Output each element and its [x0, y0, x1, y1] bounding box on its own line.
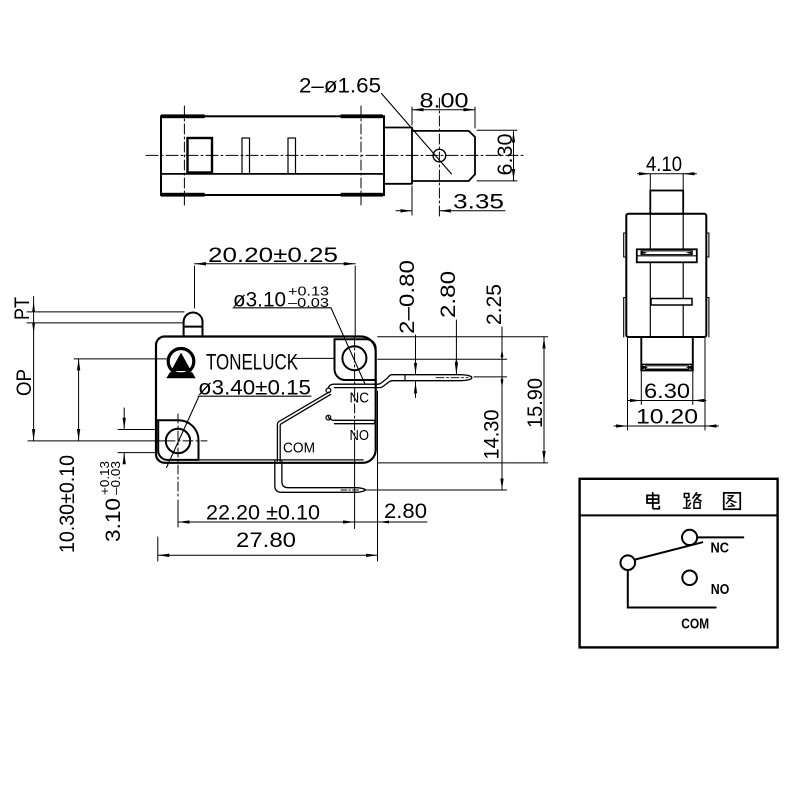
top view plunger outline [412, 131, 475, 181]
dimension 15.90 [524, 378, 547, 428]
svg-text:8.00: 8.00 [420, 90, 469, 113]
PT reference line free position [27, 311, 184, 313]
plunger button dome [184, 312, 203, 336]
PT dimension label [11, 297, 34, 320]
dimension 2.80 right [437, 271, 460, 318]
dimension 3.10 left with tolerance [97, 461, 125, 542]
svg-text:NO: NO [711, 582, 730, 598]
svg-text:2–ø1.65: 2–ø1.65 [299, 75, 381, 98]
top view plunger hole centerline [438, 98, 440, 216]
mounting hole top-right [342, 346, 366, 370]
circuit box frame [580, 479, 778, 648]
top view centerline vertical right [360, 106, 362, 205]
side view button [650, 191, 683, 214]
side view left rib upper [624, 233, 627, 257]
svg-text:10.20: 10.20 [636, 406, 698, 429]
svg-text:22.20 ±0.10: 22.20 ±0.10 [206, 502, 320, 525]
COM lead centerline [341, 489, 359, 491]
top view raised tab bottom-left [161, 193, 205, 197]
right extension line body bottom [378, 462, 548, 464]
svg-text:NO: NO [350, 428, 370, 444]
dimension 2-0.80 [396, 260, 419, 334]
COM spring arm [277, 392, 330, 461]
dimension 14.30 [481, 410, 504, 460]
top view horizontal centerline [146, 154, 524, 156]
chinese title lu (road) [684, 493, 702, 509]
top view pin hole [433, 149, 446, 162]
OP reference line bottom [28, 440, 165, 442]
top view raised tab bottom-right [341, 193, 383, 197]
body interior bottom wall [199, 459, 364, 461]
svg-text:–0.03: –0.03 [108, 461, 123, 495]
top view square opening [188, 138, 213, 173]
NO internal bar [328, 417, 374, 424]
hole centerline vertical top-right [354, 336, 356, 437]
top view raised tab top-left [161, 114, 205, 118]
circuit lever arm [635, 542, 703, 559]
side view right rib lower [706, 298, 709, 338]
side view right rib upper [706, 233, 709, 257]
chinese title tu (drawing) [724, 493, 740, 509]
svg-text:3.35: 3.35 [453, 191, 504, 214]
top view body outline [161, 116, 384, 195]
svg-text:NC: NC [350, 391, 370, 407]
circuit NC wire [697, 536, 743, 538]
dimension 2.25 [483, 284, 506, 325]
circuit COM pivot circle [621, 555, 636, 570]
svg-text:TONELUCK: TONELUCK [206, 350, 298, 375]
circuit NO contact circle [682, 571, 697, 586]
top view internal parting line [161, 173, 384, 175]
top view neck [384, 128, 412, 184]
NC blade centerline [436, 377, 468, 379]
svg-text:NC: NC [711, 541, 730, 557]
svg-text:OP: OP [13, 369, 36, 396]
NC internal bar [328, 384, 376, 388]
COM lead pin [275, 461, 366, 492]
chinese title dian (electric) [647, 493, 659, 509]
top view raised tab top-right [341, 114, 383, 118]
right extension line hole center [378, 358, 507, 360]
circuit NC contact circle [682, 530, 697, 545]
hole centerline vertical bottom-left [177, 414, 179, 498]
dimension 10.30+-0.10 [56, 455, 79, 553]
side view terminal bar 1 [637, 249, 697, 262]
side view body [626, 214, 706, 337]
top view slot 2 [288, 138, 296, 174]
dimension 6.30 (top view) [494, 134, 517, 176]
svg-text:2–0.80: 2–0.80 [396, 260, 419, 334]
logo pedestal [166, 372, 195, 378]
mounting boss top-right [335, 339, 376, 380]
side view terminal bar 3 [641, 363, 693, 365]
svg-text:10.30±0.10: 10.30±0.10 [56, 455, 79, 553]
svg-text:4.10: 4.10 [646, 153, 682, 176]
svg-text:2.80: 2.80 [437, 271, 460, 318]
right extension line lead bottom [367, 489, 507, 491]
svg-text:2.25: 2.25 [483, 284, 506, 325]
side view internal column lines [649, 214, 651, 337]
right extension line body top [378, 336, 548, 338]
PT/OP dimension line [33, 297, 35, 441]
NC blade bend tick [404, 375, 406, 381]
svg-text:COM: COM [681, 617, 709, 633]
mounting hole bottom-left [166, 429, 190, 453]
right extension line blade tip center [474, 376, 507, 378]
svg-text:6.30: 6.30 [644, 380, 690, 403]
side view left rib lower [624, 298, 627, 338]
PT reference line operating position [27, 322, 184, 324]
top view slot 1 [242, 138, 250, 174]
front body outline [156, 337, 376, 463]
svg-text:2.80: 2.80 [384, 500, 427, 523]
mounting boss bottom-left [157, 420, 199, 460]
NC lever blade [376, 375, 472, 388]
logo circle [168, 349, 194, 375]
leader line 2-diameter1.65 [382, 94, 452, 175]
OP dimension label [13, 369, 36, 396]
svg-text:3.10: 3.10 [102, 498, 125, 542]
side view terminal bar 2 [651, 299, 692, 306]
svg-text:PT: PT [11, 297, 34, 320]
side view bottom block [641, 337, 693, 370]
circuit box header divider [580, 514, 778, 516]
svg-text:14.30: 14.30 [481, 410, 504, 460]
svg-text:COM: COM [283, 441, 315, 457]
top view centerline vertical left [183, 106, 185, 205]
logo triangle [171, 353, 191, 371]
svg-text:27.80: 27.80 [236, 529, 296, 552]
circuit COM wire [628, 570, 716, 608]
